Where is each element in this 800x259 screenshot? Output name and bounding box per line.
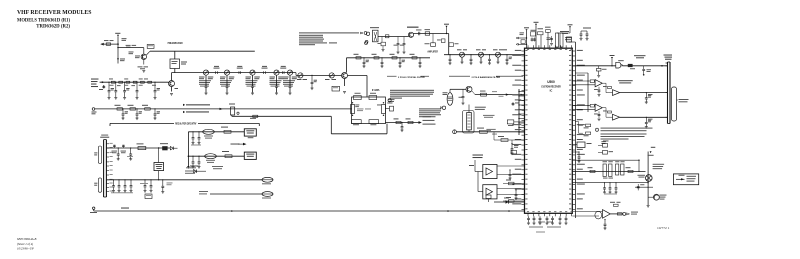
resistor R580 (138, 147, 146, 150)
note to sheet 2 (186, 167, 196, 168)
gate U501A (616, 62, 621, 68)
shield outline FL502 (463, 111, 475, 134)
resistor R512 (412, 57, 417, 59)
rail into IC left mid (518, 89, 520, 135)
transformer pair above IC (556, 33, 559, 47)
capacitor drop reg b (130, 147, 131, 148)
vertical feed (187, 132, 189, 166)
box L500 coil (170, 59, 180, 69)
wire 9.6V row (106, 179, 262, 181)
wire mixer out (414, 33, 449, 35)
wire driver A output (620, 92, 668, 94)
transistor Q505 osc (466, 86, 472, 92)
cap cluster right osc (512, 102, 514, 106)
gnd audio rail (647, 205, 650, 207)
IC U500 custom receiver (525, 48, 573, 213)
diode on data line (628, 64, 633, 67)
cluster between comparator stages A (602, 82, 606, 84)
op-amp U504 audio pa (603, 210, 611, 219)
svg-text:VHF RECEIVER MODULES: VHF RECEIVER MODULES (17, 9, 92, 16)
svg-text:TRD6362D (R2): TRD6362D (R2) (36, 25, 70, 30)
capacitors below IC bottom (528, 216, 530, 218)
labels left of IC top (520, 31, 525, 34)
resonator value labels 1 (226, 75, 228, 79)
test circle below note (388, 99, 391, 102)
wire osc out to IC (472, 91, 475, 95)
label OUTPUT DATA BUFFER (634, 55, 646, 56)
audio caps right of IC (578, 151, 579, 152)
caps near filters (509, 169, 510, 170)
IC left pins (522, 50, 525, 52)
resistor R581 (224, 130, 231, 133)
wire IF lower branch (231, 115, 233, 117)
labels below IC caps (538, 221, 545, 224)
box right of V+ col (147, 45, 154, 49)
resistor R570 (480, 130, 488, 133)
wire collector to TP (146, 51, 150, 55)
connector P500 shell lower (98, 178, 101, 192)
resistor R582 (225, 155, 232, 158)
filter FL502 tall box (467, 113, 472, 130)
capacitor C572 drop (646, 117, 647, 118)
comparator U502B (595, 104, 602, 111)
resonator value labels 4 (289, 75, 291, 79)
V+ flag gate (610, 55, 615, 56)
capacitor C511 drop (154, 82, 155, 83)
label RF INPUT FROM ANTENNA SWITCH (91, 79, 99, 80)
note THE LS SPEAKER (653, 163, 665, 166)
wire aux row (188, 155, 244, 157)
wire preamp feed left (102, 43, 119, 45)
output circle (623, 212, 626, 215)
box mixer right b (449, 43, 453, 47)
varactor resonator VR502 (250, 70, 255, 75)
labels TO FROM osc (475, 107, 486, 108)
filter block A (483, 165, 497, 179)
coupling capacitor 0 (215, 71, 217, 74)
test point circle b (365, 40, 368, 43)
offpage arrow lower (516, 43, 518, 45)
wire to transistor base col (118, 47, 144, 49)
resistor R502 (148, 81, 152, 83)
inductor L505 (253, 115, 258, 117)
wires filter A to IC (497, 165, 525, 167)
box right of IC audio (577, 142, 585, 148)
resistor R540 (396, 121, 401, 123)
resonator value labels 0 (205, 75, 207, 79)
V+ flag mixer (444, 24, 449, 25)
inductor L501 (119, 81, 123, 83)
audio out labels (631, 211, 638, 214)
capacitor drop mixer c (403, 37, 405, 44)
label DET AUD FILTER (473, 155, 484, 156)
caps below audio lines (604, 182, 605, 183)
V+ flag preamp (115, 33, 120, 34)
driver U503B (613, 114, 620, 120)
capacitor C571 drop (646, 92, 647, 93)
resonator value labels 3 (276, 75, 278, 79)
capacitor C504 (111, 81, 115, 83)
caps below osc transistor (462, 89, 464, 96)
capacitor chain gnd 0 (205, 85, 208, 87)
resistor on osc out (481, 93, 487, 96)
varactor resonator VR503 (274, 70, 279, 75)
feedthrough FT2 (262, 192, 273, 197)
svg-text:IC: IC (550, 89, 553, 93)
ground bus A GND (94, 210, 525, 212)
junction dots audio (638, 160, 639, 161)
capacitor drop reg a (118, 147, 119, 148)
svg-text:CUSTOM RECEIVER: CUSTOM RECEIVER (541, 85, 561, 89)
polarized cap C5B (122, 145, 124, 148)
coupling capacitor 1 (238, 71, 240, 74)
polarized cap C5A (113, 145, 115, 148)
label J500 (664, 55, 673, 56)
microphone MK500 (654, 194, 660, 200)
capacitor on wire (417, 32, 419, 36)
capacitor C520 (311, 75, 312, 76)
capacitor C508 drop (115, 82, 116, 83)
resistor R574 (509, 200, 515, 203)
arrowhead on IF line (220, 108, 223, 110)
inductor L5 on feed (106, 43, 110, 45)
crystal Y500 oscillator (447, 93, 453, 106)
capacitor C542 drop (506, 54, 507, 55)
varactor resonator VR505 (298, 73, 303, 78)
top edge box 1 (354, 96, 362, 100)
inductor L510 (392, 57, 397, 59)
V+ flag 3 (568, 24, 573, 25)
V+ rail inner (587, 73, 589, 112)
transistor Q500 (143, 48, 145, 55)
wire mixer to bandpass (448, 34, 450, 55)
test point circles (366, 32, 369, 35)
svg-text:6EPC09824A-B: 6EPC09824A-B (17, 237, 36, 241)
svg-text:PREAMPLIFIER: PREAMPLIFIER (168, 41, 183, 45)
wire PA input riser (638, 160, 640, 171)
box B1 above IC (531, 32, 536, 36)
capacitor C570 drop (643, 66, 645, 70)
wire FL to det row (468, 130, 470, 132)
wire chain to box riser (348, 75, 368, 77)
wire lower audio branch (635, 186, 653, 188)
ruled label 2 POLE BANDPASS FILTER (449, 75, 470, 77)
resistor R503 emitter drop (171, 87, 173, 92)
box VOL SQ HI (244, 129, 256, 136)
resistor R550 below line (598, 66, 600, 69)
cap cluster mid (144, 179, 145, 180)
offpage arrow upper (516, 37, 518, 39)
label DIFFERENTIAL DATA DRIVER CIRCUITS (618, 80, 633, 81)
resistor R520 (425, 32, 430, 35)
wire resonator chain (172, 72, 297, 74)
labels P500 side (94, 152, 97, 153)
connector P500 shell upper (98, 146, 101, 164)
cluster upper audio (603, 144, 608, 148)
audio PA transistor circle (646, 175, 653, 182)
connector P500 strip (103, 140, 105, 197)
svg-text:MODELS TRD6361D (R1): MODELS TRD6361D (R1) (17, 18, 70, 23)
wire filter output (385, 122, 418, 124)
inductor L502 (133, 81, 137, 83)
V plus labels below note (601, 140, 606, 143)
varactor resonator VR506 (329, 73, 334, 78)
driver U503A (613, 90, 620, 96)
capacitor chain gnd 2 (251, 85, 254, 87)
wire output data line (572, 65, 616, 67)
bottom edge box 2 (369, 120, 379, 124)
DC volts oval 2 (205, 154, 217, 159)
feedthrough FT1 (262, 177, 273, 182)
varactor resonator VR501 (224, 70, 229, 75)
tuned coil T500 (460, 52, 465, 57)
capacitor C540 drop (470, 54, 471, 55)
IC right pins (572, 50, 575, 52)
svg-text:(Sheet 1 of 4): (Sheet 1 of 4) (17, 242, 33, 246)
resistor R541 (408, 121, 413, 123)
ferrite bead dark box (162, 146, 167, 150)
crystal Y501 left edge (351, 105, 355, 114)
V+ flag 2 (534, 22, 539, 23)
V+ box right of IC (567, 37, 572, 42)
right exit box (385, 108, 389, 110)
capacitor C583 drop (604, 219, 605, 220)
diode CR501 (170, 147, 173, 150)
emitter labels (143, 60, 145, 65)
svg-text:10/23/96--UP: 10/23/96--UP (17, 247, 34, 251)
svg-text:2 POLE CRYSTAL FILTER: 2 POLE CRYSTAL FILTER (398, 76, 425, 79)
ruled label 2 POLE CRYSTAL FILTER (387, 75, 397, 77)
IC bottom pins (527, 213, 529, 216)
filter center labels (357, 108, 364, 111)
note below bandpass (390, 90, 434, 91)
capacitor C550 drop (122, 108, 123, 109)
label 1st MIXER (407, 27, 419, 28)
capacitor C523 drop (399, 57, 400, 58)
box on left flag column (521, 40, 525, 44)
wire regulator top row (106, 147, 170, 149)
bracket REGULATOR CIRCUITRY (109, 123, 111, 126)
caps B above IC (531, 38, 533, 42)
junction arrow (102, 81, 104, 83)
wires comparators inputs (572, 80, 590, 82)
wire top det row (456, 131, 524, 133)
caps on 9.6V row (113, 179, 114, 180)
capacitor C510 drop (136, 82, 137, 83)
capacitor C552 drop (154, 108, 155, 109)
caps C above IC (551, 36, 553, 43)
wire gate output to J500 (622, 65, 667, 67)
labels on osc out (492, 90, 497, 93)
amplifier bias box (432, 34, 434, 43)
resistor input box A (590, 80, 594, 83)
test point circle a (364, 32, 367, 35)
label microphone data (679, 99, 689, 100)
wire bandpass row (444, 54, 525, 56)
resistor R531 (130, 108, 136, 110)
wire vol row (188, 131, 244, 133)
wire shield corner (330, 116, 332, 134)
svg-text:REGULATOR CIRCUITRY: REGULATOR CIRCUITRY (175, 122, 196, 126)
labels 1 of 2 (483, 114, 495, 117)
box mixer right a (441, 39, 445, 43)
resistor R561 (628, 170, 633, 172)
wire diode row above bus (494, 201, 525, 203)
V+ rail right of IC (574, 42, 576, 218)
capacitor C551 drop (136, 108, 137, 109)
coil L504 vertical (231, 107, 235, 115)
transistor Q503 mixer (408, 32, 413, 37)
svg-text:AMPLIFIER: AMPLIFIER (427, 50, 438, 53)
capacitor C509 drop (124, 82, 125, 83)
wire mixer input row (347, 57, 431, 59)
wire filter A input (475, 171, 483, 173)
capacitor C506 (141, 81, 145, 83)
box AUX RX (244, 152, 256, 159)
wire lower aux row (210, 193, 262, 195)
capacitor C560 drop (401, 122, 402, 123)
comparator U502A (595, 80, 602, 87)
svg-text:2 POLE BANDPASS FILTER: 2 POLE BANDPASS FILTER (472, 76, 501, 79)
IC top pins (527, 45, 529, 48)
varactor CR500 (103, 85, 105, 89)
cluster between comparator stages B (602, 107, 606, 109)
resistor input box B (590, 104, 594, 107)
input chain extra labels (110, 84, 114, 87)
capacitor chain gnd 4 (289, 85, 292, 87)
box above diode row (486, 195, 491, 199)
capacitor C507 drop (108, 82, 109, 83)
cap drop right of U501 (162, 179, 163, 180)
labels near det row (486, 128, 495, 131)
connector J500 strip (667, 62, 669, 124)
note denotes circled 1 (595, 128, 598, 131)
filter FL500 (373, 30, 379, 42)
note audio top (601, 134, 647, 135)
filter block B (483, 185, 497, 199)
bias labels under V+ col (120, 58, 125, 61)
legend box (673, 174, 698, 185)
box on mixer row (385, 35, 389, 38)
resistor R532 (145, 108, 151, 110)
wire filter B input (478, 191, 483, 193)
label A GND (121, 208, 129, 209)
box B2 above IC (538, 32, 544, 35)
feedback loop (595, 211, 602, 219)
capacitor drop mixer a (381, 37, 383, 43)
labels under row (140, 182, 148, 185)
caps on aux row (192, 156, 193, 157)
capacitor C581 (637, 184, 639, 190)
tuned coil T501 (479, 52, 484, 57)
labels det row (486, 129, 492, 132)
arrowhead to J500 (419, 121, 422, 124)
box below rows (145, 194, 152, 199)
svg-text:U500: U500 (547, 80, 555, 84)
junction dot data line (661, 65, 663, 67)
wire op-amp output (610, 213, 622, 215)
connector J500 shell (672, 87, 677, 121)
box C above IC (546, 30, 551, 33)
wire antenna input (100, 81, 169, 83)
coupling capacitor 2 (263, 71, 265, 74)
label TRD6361D-R1 ONLY (183, 104, 185, 106)
cap cluster near IC (511, 143, 512, 144)
wire audio lower line (572, 182, 648, 184)
transformer pair 2 (616, 164, 619, 175)
resistor rows below driver B (575, 121, 578, 123)
wire crystal to osc line (449, 89, 451, 92)
capacitor drop mixer b (397, 37, 399, 44)
transistor Q501 (169, 81, 175, 87)
label P500 above strip (100, 137, 109, 138)
wire mixer top row (378, 36, 409, 38)
V+ rail audio right (647, 152, 649, 206)
bottom edge box 1 (352, 120, 362, 124)
test point left (92, 108, 95, 111)
transistor Q502 mixer buffer (342, 73, 348, 79)
test circle osc (442, 106, 445, 109)
transformer pair 1 (603, 164, 606, 177)
DC volts oval 1 (203, 129, 215, 134)
resistor R560 (590, 170, 595, 172)
note crystal filter right (419, 108, 441, 109)
wire IF line (95, 108, 352, 110)
wire audio top line (598, 159, 639, 161)
test point det (453, 130, 457, 134)
resistor R511 (374, 57, 379, 59)
connector pin stubs (106, 143, 109, 145)
crystal Y502 right edge (382, 105, 386, 114)
resistor R571 to IC (501, 139, 508, 142)
capacitor chain gnd 1 (226, 85, 229, 87)
chain jog (295, 73, 297, 76)
varactor resonator VR500 (203, 70, 208, 75)
resistor R530 (117, 108, 123, 110)
wires filter B to IC (497, 188, 525, 190)
bias box Q502 (332, 86, 340, 91)
resistor R573 (509, 182, 515, 185)
labels TO J500 (423, 116, 436, 117)
capacitor C524 drop (419, 57, 420, 58)
label TRD6362D-R2 ONLY (183, 111, 185, 113)
label 9.6V arrow (231, 144, 240, 145)
bias network labels (129, 51, 134, 54)
wire driver B output (620, 116, 668, 118)
svg-text:IF AMPL: IF AMPL (372, 89, 380, 92)
tuned coil T502 (496, 52, 501, 57)
crystal filter FL501 box (352, 97, 386, 124)
regulator U501 box (154, 163, 164, 171)
diode CR503 cluster (194, 170, 197, 173)
capacitor C522 drop (381, 57, 382, 58)
varactor resonator VR504 (287, 70, 292, 75)
caps on vol row (192, 131, 193, 132)
top edge box 2 (369, 96, 377, 100)
svg-text:10/772 1: 10/772 1 (657, 226, 670, 230)
wire audio mid line (572, 170, 645, 172)
V+ flag above IC left (524, 27, 529, 28)
coupling capacitor 3 (281, 71, 283, 74)
capacitor C521 drop (363, 57, 364, 58)
gnd at left end (93, 207, 95, 209)
capacitor C505 (126, 81, 130, 83)
note rf signal path (299, 32, 359, 33)
connector pin ticks (666, 62, 668, 64)
resonator value labels 2 (252, 75, 254, 79)
capacitor C541 drop (489, 54, 490, 55)
resistor R565 (617, 213, 622, 215)
